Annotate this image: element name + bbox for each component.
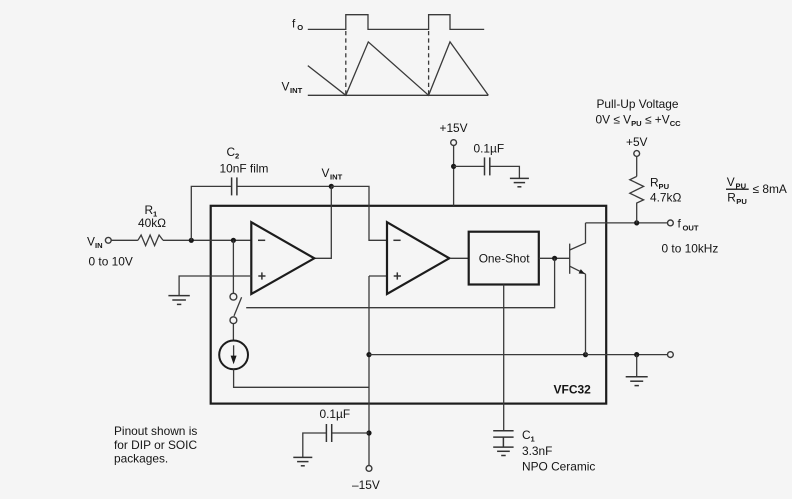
wire V_INT node down to U1 output	[314, 186, 331, 258]
one-shot block	[469, 232, 539, 285]
node V_IN input terminal	[105, 237, 111, 243]
wire RPU to f_OUT node	[636, 206, 638, 224]
junction summing node	[189, 238, 194, 243]
wire one-shot output to Q1 base	[539, 257, 570, 259]
svg-text:≤ 8mA: ≤ 8mA	[753, 182, 787, 196]
junction external ground tap	[634, 352, 639, 357]
node common terminal	[668, 352, 674, 358]
op-amp U1 integrator	[251, 222, 314, 294]
node f_OUT terminal	[668, 220, 674, 226]
svg-text:packages.: packages.	[114, 452, 168, 466]
wire rail to external common terminal	[586, 354, 668, 356]
junction f_OUT pull-up node	[634, 220, 639, 225]
ground at common output	[626, 377, 648, 386]
svg-text:0.1µF: 0.1µF	[320, 407, 351, 421]
current source I1	[219, 341, 248, 370]
junction V_INT node	[329, 184, 334, 189]
svg-text:for DIP or SOIC: for DIP or SOIC	[114, 438, 197, 452]
svg-text:INT: INT	[330, 173, 343, 182]
junction one-shot output node	[552, 256, 557, 261]
wire U1 non-inverting input to ground	[179, 276, 251, 295]
svg-text:V: V	[282, 80, 290, 94]
ground at V- bypass	[293, 457, 312, 465]
resistor R1	[138, 235, 163, 246]
waveform dashed reset marker 1	[345, 31, 347, 95]
waveform f_O square-wave trace	[308, 15, 484, 30]
wire V_IN terminal to R1	[111, 239, 138, 241]
svg-text:IN: IN	[95, 241, 103, 250]
wire tap to bypass capacitor	[454, 165, 485, 167]
ground at U1 non-inverting input	[168, 296, 189, 305]
svg-text:–15V: –15V	[352, 478, 380, 492]
svg-text:VFC32: VFC32	[554, 383, 592, 397]
svg-text:3.3nF: 3.3nF	[522, 444, 552, 458]
svg-text:R: R	[727, 191, 736, 205]
svg-text:V: V	[727, 175, 735, 189]
wire node down to switch S1	[232, 240, 234, 293]
wire U2 output to one-shot	[450, 257, 469, 259]
wire V_INT node to U2 inverting input	[331, 186, 387, 240]
wire +15V into box	[453, 146, 455, 206]
wire R1 to U1 inverting input	[163, 239, 252, 241]
VFC32 package box	[211, 206, 607, 404]
wire V- supply vertical	[368, 276, 370, 466]
waveform V_INT ramp trace	[308, 42, 489, 95]
wire one-shot timing pin to C1	[503, 285, 505, 431]
svg-text:10nF film: 10nF film	[220, 162, 269, 176]
waveform dashed reset marker 2	[428, 31, 430, 95]
capacitor C2	[231, 177, 233, 195]
svg-text:PU: PU	[736, 197, 747, 206]
svg-text:INT: INT	[290, 86, 303, 95]
node +5V terminal	[634, 151, 640, 157]
capacitor 0.1µF V- bypass	[325, 424, 327, 442]
svg-text:0.1µF: 0.1µF	[474, 142, 505, 156]
svg-text:NPO Ceramic: NPO Ceramic	[522, 460, 595, 474]
svg-text:Pinout shown is: Pinout shown is	[114, 424, 197, 438]
junction bottom rail tap	[366, 352, 371, 357]
transistor Q1	[570, 223, 586, 274]
wire V- bypass capacitor to ground	[303, 433, 326, 457]
wire current source return to V- rail	[234, 369, 369, 387]
svg-text:One-Shot: One-Shot	[479, 251, 531, 265]
wire switch to current source	[232, 324, 234, 341]
wire feedback to C2	[191, 186, 231, 240]
svg-text:V: V	[322, 166, 330, 180]
ground at C1	[493, 447, 513, 455]
svg-text:Pull-Up Voltage: Pull-Up Voltage	[597, 97, 679, 111]
wire C2 to V_INT node	[237, 185, 331, 187]
svg-text:OUT: OUT	[683, 224, 699, 233]
svg-text:2: 2	[235, 152, 239, 161]
wire +5V to RPU	[636, 156, 638, 176]
formula VPU/RPU ≤ 8mA	[726, 175, 787, 206]
svg-text:V: V	[87, 235, 95, 249]
wire ground tap down	[636, 355, 638, 377]
capacitor 0.1µF V+ bypass	[484, 157, 486, 175]
wire Q1 emitter to rail	[585, 274, 587, 355]
junction +15V bypass tap	[451, 164, 456, 169]
ground at V+ bypass	[510, 178, 529, 186]
wire U2 non-inverting input stub	[369, 275, 387, 277]
bottom rail wire	[369, 354, 586, 356]
svg-text:0 to 10V: 0 to 10V	[89, 255, 133, 269]
resistor RPU	[630, 176, 644, 205]
capacitor C1	[493, 431, 513, 447]
node +15V terminal	[451, 140, 457, 146]
op-amp U2 comparator	[387, 222, 449, 294]
wire tap to V- bypass capacitor	[332, 432, 369, 434]
svg-text:+15V: +15V	[440, 121, 468, 135]
junction V- bypass tap	[366, 430, 371, 435]
node -15V terminal	[366, 466, 372, 472]
waveform V_INT baseline	[308, 94, 489, 96]
switch S1	[230, 293, 242, 323]
junction emitter to rail	[583, 352, 588, 357]
svg-text:40kΩ: 40kΩ	[138, 216, 166, 230]
wire f_OUT	[586, 222, 668, 224]
svg-text:O: O	[297, 23, 303, 32]
junction switch branch node	[231, 238, 236, 243]
svg-text:0 to 10kHz: 0 to 10kHz	[662, 242, 719, 256]
svg-text:4.7kΩ: 4.7kΩ	[650, 191, 681, 205]
note pinout	[114, 424, 197, 465]
wire switch control line	[246, 258, 554, 307]
svg-text:+5V: +5V	[626, 135, 648, 149]
wire bypass capacitor to ground	[490, 166, 519, 178]
